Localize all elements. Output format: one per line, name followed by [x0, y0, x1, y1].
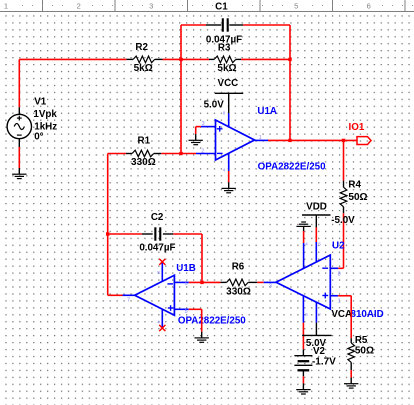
svg-text:VDD: VDD: [306, 202, 327, 213]
U2 bottom pin leads: [302, 296, 304, 323]
op-amp U2 VCA810: [276, 255, 330, 309]
U1A output pin 1 lead: [255, 139, 269, 141]
svg-text:1: 1: [4, 2, 8, 11]
svg-text:0°: 0°: [34, 131, 43, 142]
svg-text:VCA: VCA: [331, 309, 352, 320]
wire C2 right down to U1B inverting net: [173, 233, 202, 235]
wire C2 left to R1/U1B rail: [108, 233, 142, 235]
svg-text:0.047µF: 0.047µF: [206, 35, 242, 46]
wire V1 bottom: [18, 147, 20, 168]
wire U1A bottom power to ground: [228, 171, 230, 182]
svg-text:50Ω: 50Ω: [348, 192, 367, 203]
U1A bottom power pin lead: [228, 153, 230, 171]
svg-text:2: 2: [201, 148, 204, 154]
wire R1 left to U1B output rail: [108, 153, 126, 155]
ground below U1B non-inverting: [201, 332, 203, 338]
U2 top pin leads: [303, 243, 305, 268]
ground below V2: [302, 383, 304, 389]
svg-text:V2: V2: [313, 346, 326, 357]
wire R4 to U2 inverting input: [343, 213, 345, 268]
svg-text:330Ω: 330Ω: [131, 157, 156, 168]
node junction R3/C1 right rail: [288, 58, 291, 61]
svg-text:1: 1: [338, 299, 341, 305]
U1B output pin 7 lead: [123, 294, 136, 296]
svg-text:7: 7: [127, 298, 130, 304]
wire feedback left rail: [180, 25, 182, 154]
svg-text:V1: V1: [34, 96, 47, 107]
svg-text:R4: R4: [348, 180, 361, 191]
svg-text:R5: R5: [355, 335, 368, 346]
U2 right pin leads: [331, 267, 339, 269]
U1B pin 5 lead (non-inverting): [174, 308, 188, 310]
svg-text:1Vpk: 1Vpk: [33, 109, 57, 120]
wire V1 to R2 horizontal: [19, 58, 126, 60]
svg-text:50Ω: 50Ω: [355, 346, 374, 357]
svg-text:R6: R6: [232, 262, 245, 273]
resistor R6: [221, 281, 227, 283]
capacitor C1: [206, 24, 221, 26]
U1B pin 6 lead (inverting): [174, 281, 188, 283]
resistor R4: [343, 181, 345, 188]
svg-text:8: 8: [338, 271, 341, 277]
node junction feedback-left / R2-R3: [179, 58, 182, 61]
sheet border ruler: [0, 11, 414, 13]
wire R2 to R3: [163, 58, 210, 60]
ground below R5: [350, 378, 352, 384]
wire R6 to U2 input: [257, 281, 263, 283]
op-amp U1A: [216, 120, 255, 160]
battery V2: [302, 349, 304, 355]
wire feedback right rail: [289, 25, 291, 140]
svg-text:C2: C2: [151, 212, 164, 223]
wire U2 bottom-left pin to V2: [302, 323, 304, 350]
svg-text:OPA2822E/250: OPA2822E/250: [258, 161, 326, 172]
svg-text:810AID: 810AID: [351, 309, 384, 320]
resistor R3: [209, 58, 214, 60]
wire V1 top vertical: [18, 59, 20, 107]
U1A pin 2 lead (inverting): [196, 153, 216, 155]
node junction feedback-left / R1 net: [179, 152, 182, 155]
resistor R5: [350, 338, 352, 343]
svg-text:IO1: IO1: [349, 122, 365, 133]
U1B unconnected top power pin X: [159, 259, 165, 265]
svg-text:3: 3: [269, 284, 272, 290]
flipped ground above U2: [303, 226, 305, 231]
ground at U1A non-inverting input: [195, 134, 197, 140]
node junction feedback right at output: [288, 139, 291, 142]
wire output to R4: [343, 140, 345, 180]
U1A pin 3 lead (non-inverting): [201, 126, 216, 128]
svg-text:U1A: U1A: [257, 106, 277, 117]
wire U2 top-left pin to flipped ground: [303, 231, 305, 243]
svg-text:R1: R1: [138, 135, 151, 146]
wire R1 to U1A inverting input: [161, 153, 196, 155]
node junction R4 branch at output: [342, 139, 345, 142]
svg-text:5.0V: 5.0V: [204, 100, 225, 111]
voltage source V1: [7, 114, 31, 138]
wire VDD to U2 top-right pin: [315, 227, 317, 242]
U1B unconnected bottom power pin X: [159, 325, 165, 331]
svg-text:VCC: VCC: [218, 78, 239, 89]
svg-text:1: 1: [259, 135, 262, 141]
svg-text:2: 2: [77, 2, 81, 11]
svg-text:6: 6: [185, 281, 188, 287]
U1A top power pin lead: [228, 113, 230, 127]
ground below V1: [18, 168, 20, 174]
svg-text:OPA2822E/250: OPA2822E/250: [178, 316, 246, 327]
svg-text:0.047µF: 0.047µF: [139, 243, 175, 254]
wire R5 to ground: [350, 370, 352, 377]
svg-text:6: 6: [367, 2, 371, 11]
svg-text:U2: U2: [332, 240, 345, 251]
wire U1B non-inverting to ground: [189, 308, 202, 310]
resistor R1: [126, 153, 132, 155]
power rail 5.0V bar at U2 bottom-right pin: [302, 334, 332, 336]
svg-text:C1: C1: [215, 2, 228, 13]
svg-text:5kΩ: 5kΩ: [217, 63, 236, 74]
svg-text:330Ω: 330Ω: [226, 286, 251, 297]
wire C1 to right rail: [243, 24, 290, 26]
wire R3 to feedback-right: [241, 58, 290, 60]
svg-text:-5.0V: -5.0V: [331, 215, 355, 226]
connector IO1: [357, 137, 371, 145]
wire V2 to ground: [302, 376, 304, 383]
svg-text:3: 3: [149, 2, 153, 11]
svg-text:-1.7V: -1.7V: [312, 357, 336, 368]
wire U2 plus pin to R5: [338, 295, 351, 297]
ground below U1A: [228, 182, 230, 188]
capacitor C2: [142, 233, 153, 235]
U1B bottom power pin lead: [161, 309, 163, 328]
U2 input pin 3 lead: [264, 281, 276, 283]
VCC power symbol: [215, 92, 243, 94]
U1B top power pin lead: [161, 262, 163, 282]
node junction C2 left: [106, 232, 109, 235]
op-amp U1B: [135, 275, 175, 315]
svg-text:U1B: U1B: [176, 263, 196, 274]
svg-text:5kΩ: 5kΩ: [134, 63, 153, 74]
wire U1A pin3 to ground: [196, 126, 201, 128]
svg-text:R2: R2: [135, 42, 148, 53]
svg-text:5: 5: [185, 309, 188, 315]
node junction C2/R6/U1B- net: [200, 281, 203, 284]
wire U1B output to rail: [108, 294, 123, 296]
wire U1A output node: [268, 139, 357, 141]
VDD power symbol: [302, 214, 331, 216]
svg-text:5: 5: [294, 2, 298, 11]
wire U1B inverting node to R6: [189, 281, 221, 283]
wire C1 top-left segment: [181, 24, 206, 26]
resistor R2: [126, 58, 133, 60]
svg-text:3: 3: [202, 121, 205, 127]
